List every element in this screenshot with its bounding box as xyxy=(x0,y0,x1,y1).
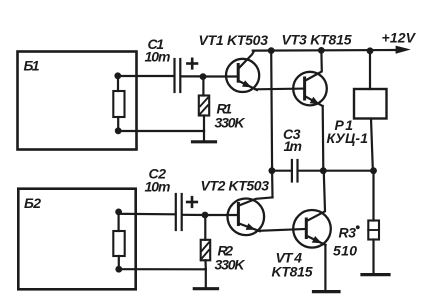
svg-text:VT1 KT503: VT1 KT503 xyxy=(199,32,269,48)
node Б1 bottom xyxy=(115,127,122,134)
svg-text:10m: 10m xyxy=(145,49,171,65)
ground of R3 xyxy=(362,273,389,276)
wire junction to C3 xyxy=(272,170,291,172)
svg-text:VT2 KT503: VT2 KT503 xyxy=(201,178,270,194)
ground of R1 xyxy=(193,131,216,142)
svg-text:10m: 10m xyxy=(145,179,171,195)
node Б2 top xyxy=(115,209,122,216)
wire node to VT2 base xyxy=(205,214,238,216)
wire Б2 bottom to R2 ground xyxy=(119,268,206,270)
wire Б2 top to C2 xyxy=(119,213,174,216)
wire Б1 bottom to R1 ground xyxy=(118,130,204,132)
node rail to vertical feed xyxy=(268,47,275,54)
transistor VT4 xyxy=(293,173,331,291)
svg-text:+12V: +12V xyxy=(382,30,417,46)
wire Б1 top to C1 xyxy=(118,75,174,77)
node relay bottom R3 top xyxy=(370,167,377,174)
wire VT2 emitter to VT4 base xyxy=(258,229,306,231)
capacitor C1 xyxy=(175,59,181,92)
wire node to VT1 base xyxy=(203,75,238,77)
capacitor C2 xyxy=(176,194,182,230)
svg-text:КУЦ-1: КУЦ-1 xyxy=(327,130,369,146)
svg-text:1m: 1m xyxy=(284,138,303,154)
svg-text:R3: R3 xyxy=(339,225,357,241)
transistor VT3 xyxy=(293,52,327,169)
label R3 with star xyxy=(339,225,360,241)
ground of VT4 emitter xyxy=(314,290,340,293)
block Б1 xyxy=(18,52,137,150)
svg-text:Б2: Б2 xyxy=(24,195,41,211)
resistor R3 xyxy=(368,172,379,273)
node Б2 bottom xyxy=(115,266,122,273)
polarity plus of C1 xyxy=(187,59,197,69)
node C2 R2 VT2 base xyxy=(202,212,209,219)
resistor R1 xyxy=(199,77,209,131)
svg-text:330K: 330K xyxy=(215,115,246,131)
svg-text:VT3 KT815: VT3 KT815 xyxy=(282,32,352,48)
sensor resistor in Б1 xyxy=(113,76,124,131)
relay P1 xyxy=(354,52,387,169)
resistor R2 xyxy=(201,215,211,269)
svg-text:KT815: KT815 xyxy=(272,263,313,279)
node rail to relay xyxy=(367,47,374,54)
wire C1 to node xyxy=(181,75,203,77)
node C3 left junction xyxy=(269,167,276,174)
ground of R2 xyxy=(194,269,217,289)
node C1 R1 VT1 base xyxy=(200,73,207,80)
polarity plus of C2 xyxy=(187,197,197,207)
transistor VT2 xyxy=(228,197,273,235)
node rail to VT3 collector xyxy=(318,47,325,54)
wire VT1 emitter to VT3 base xyxy=(256,87,305,90)
sensor resistor in Б2 xyxy=(113,212,124,269)
+12V rail xyxy=(253,46,411,54)
transistor VT1 xyxy=(226,51,259,92)
block Б2 xyxy=(18,189,135,290)
capacitor C3 xyxy=(292,160,298,182)
wire C3 to relay and R3 junction xyxy=(299,170,374,172)
wire rail down to C3 and VT2 collector xyxy=(271,51,272,198)
node VT3 emitter VT4 collector xyxy=(320,167,327,174)
svg-text:Б1: Б1 xyxy=(24,58,40,74)
svg-text:510: 510 xyxy=(333,243,357,259)
node Б1 top xyxy=(114,72,121,79)
svg-text:330K: 330K xyxy=(215,257,246,273)
wire C2 to node xyxy=(183,214,205,216)
